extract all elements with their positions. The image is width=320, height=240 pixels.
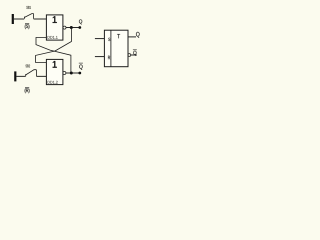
label SB2 — [26, 65, 30, 68]
gate DD1.1 body — [46, 15, 63, 40]
pin stub S — [95, 38, 105, 40]
terminal dot node Q — [78, 26, 81, 29]
junction dot node Q-bar — [70, 72, 73, 75]
wire SB1 to DD1.1 input 1 — [34, 18, 47, 20]
wire feedback node Q-bar to DD1.1 input 2 — [36, 38, 71, 74]
wire SB2 to DD1.2 input 2 — [36, 75, 46, 77]
gate DD1.2 body — [46, 59, 63, 84]
junction dot node Q — [70, 26, 73, 29]
wire feedback node Q to DD1.2 input 1 — [36, 28, 72, 63]
pin label R — [108, 56, 110, 59]
supply terminal bar (R side) — [14, 71, 16, 81]
switch SB2 — [26, 70, 37, 77]
designator DD1.2 — [48, 81, 58, 84]
pin label Q-bar — [133, 51, 136, 56]
node label (R-bar) — [25, 88, 30, 93]
label SB1 — [26, 6, 30, 9]
label Q — [79, 19, 82, 24]
wire DD1.2 output to node Q-bar — [66, 72, 80, 74]
pin label S — [108, 38, 110, 41]
flip-flop T symbol body — [104, 30, 128, 66]
label Q-bar — [79, 65, 82, 70]
node label (S-bar) — [25, 24, 30, 29]
wire terminal to SB2 — [16, 75, 25, 77]
value label 1 of DD1.1 — [53, 16, 57, 23]
terminal dot node Q-bar — [78, 72, 81, 75]
inversion bubble flip-flop Q-bar output — [128, 54, 131, 57]
inversion bubble DD1.2 output — [63, 72, 66, 75]
switch SB1 — [24, 14, 33, 19]
pin label Q — [136, 32, 140, 38]
wire DD1.1 output to node Q — [66, 27, 80, 29]
pin stub R — [95, 56, 105, 58]
flip-flop control field divider — [110, 30, 112, 66]
value label 1 of DD1.2 — [53, 61, 57, 68]
supply terminal bar (S side) — [12, 14, 14, 24]
pin stub Q-bar — [131, 54, 137, 56]
wire terminal to SB1 — [14, 18, 24, 20]
label T — [117, 34, 120, 38]
designator DD1.1 — [48, 36, 58, 39]
inversion bubble DD1.1 output — [63, 26, 66, 29]
pin stub Q — [128, 36, 136, 38]
